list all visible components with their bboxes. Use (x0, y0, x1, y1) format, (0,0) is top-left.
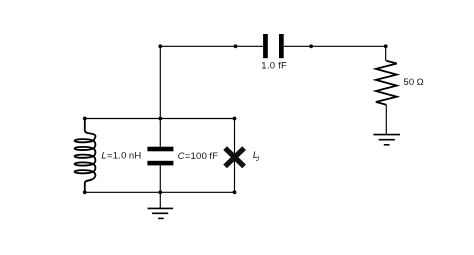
node dot top-right corner (384, 44, 388, 48)
node dot inductor bottom (83, 190, 87, 194)
svg-text:1.0 fF: 1.0 fF (261, 61, 287, 72)
wire resonator top rail (85, 118, 235, 120)
wire resistor bottom lead (385, 105, 387, 135)
node dot capacitor C2 top (158, 117, 162, 121)
svg-text:C=100 fF: C=100 fF (178, 151, 219, 162)
capacitor C1 1.0 fF plates (263, 34, 284, 58)
node dot top-left corner (158, 44, 162, 48)
wire Josephson junction branch vertical (234, 119, 236, 193)
svg-text:L=1.0 nH: L=1.0 nH (101, 150, 141, 161)
node dot junction top (233, 117, 237, 121)
node dot capacitor C1 right terminal (309, 44, 313, 48)
node dot junction bottom (233, 190, 237, 194)
wire resistor top lead (385, 46, 387, 61)
capacitor C2 100 fF plates (147, 147, 173, 166)
wire left vertical from top rail to resonator (159, 46, 161, 118)
node dot ground node (158, 190, 162, 194)
wire resonator bottom rail (85, 191, 235, 193)
resistor R1 50 Ohm zigzag (376, 61, 397, 105)
wire ground stub (159, 192, 161, 208)
svg-text:50 Ω: 50 Ω (403, 77, 424, 88)
svg-text:LJ: LJ (253, 150, 260, 163)
ground symbol bottom middle (148, 208, 174, 218)
Josephson junction X symbol (225, 148, 244, 166)
node dot capacitor C1 left terminal (234, 44, 238, 48)
wire top rail right segment (284, 45, 386, 47)
wire capacitor C2 top lead (159, 119, 161, 147)
wire capacitor C2 bottom lead (159, 165, 161, 192)
ground symbol under resistor (373, 135, 400, 145)
inductor L1 coil (75, 119, 96, 193)
wire top rail left segment (160, 45, 263, 47)
node dot inductor top (83, 117, 87, 121)
